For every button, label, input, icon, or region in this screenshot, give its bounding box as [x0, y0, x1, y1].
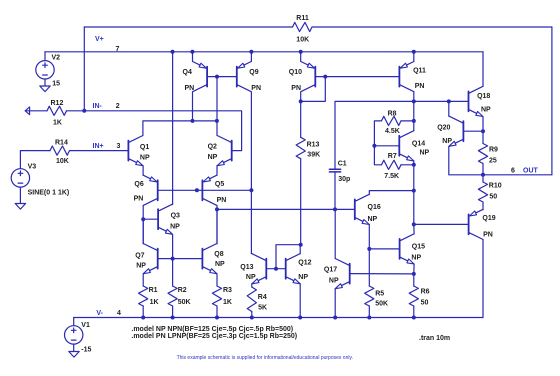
wire R3 to V- rail: [216, 306, 218, 318]
svg-text:Q3: Q3: [171, 212, 180, 219]
svg-text:Q6: Q6: [134, 181, 143, 188]
wire y101 rail C1 to Q18 base: [335, 101, 469, 169]
node junction V- R2: [171, 316, 175, 320]
wire V2 minus to ground: [44, 79, 46, 86]
wire y209 rail to Q16 base: [217, 208, 355, 210]
wire Q4/Q9 base rail: [207, 76, 237, 78]
svg-text:PN: PN: [251, 85, 261, 92]
node junction Q12/Q13 base: [274, 267, 278, 271]
svg-text:4: 4: [117, 310, 121, 317]
svg-text:Q15: Q15: [412, 244, 425, 251]
svg-text:SINE(0 1 1K): SINE(0 1 1K): [28, 189, 70, 196]
wire R6 to V- rail: [413, 306, 415, 318]
wire V1 to V- rail: [73, 318, 75, 326]
wire Q10 base down to collector node: [301, 77, 326, 102]
wire V3 to R14: [20, 151, 50, 169]
wire R14 to Q1 base node 3: [70, 150, 129, 152]
node junction Q15 emitter R6 Q17 base: [412, 272, 416, 276]
transistor Q15: [399, 239, 401, 259]
svg-text:3: 3: [117, 143, 121, 150]
wire Q9 collector down to Q13 collector: [250, 92, 252, 254]
voltage source V3: [11, 169, 29, 187]
wire Q14 collector column: [413, 101, 415, 130]
node junction y101 Q20 collector: [447, 99, 451, 103]
node junction 7-rail Q11 emitter: [412, 50, 416, 54]
wire Q10/Q11 base rail: [315, 76, 399, 78]
resistor R6: [413, 274, 415, 286]
wire R2 to V- rail: [172, 306, 174, 318]
ground below V3: [15, 204, 25, 210]
transistor Q12: [285, 259, 287, 279]
svg-text:NP: NP: [329, 278, 339, 285]
svg-text:4.5K: 4.5K: [385, 128, 400, 135]
svg-text:-15: -15: [81, 346, 91, 353]
svg-text:R8: R8: [388, 111, 397, 118]
svg-text:Q19: Q19: [482, 215, 495, 222]
wire Q6 collector down x143 column: [142, 206, 144, 244]
wire R7 right to Q14 emitter: [401, 164, 414, 166]
wire R9 to OUT line: [482, 164, 484, 175]
svg-text:1K: 1K: [53, 120, 62, 127]
transistor Q13 (mirrored): [265, 259, 267, 279]
svg-text:NP: NP: [208, 154, 218, 161]
resistor R11: [293, 22, 313, 31]
wire V+ top feedback rail (node 2 to R11): [84, 26, 292, 28]
svg-text:25: 25: [489, 157, 497, 164]
wire arrow to R12: [25, 110, 47, 112]
transistor Q7 (mirrored): [157, 249, 159, 269]
node junction Q15 base tap: [367, 247, 371, 251]
wire Q8 collector up to y209: [216, 209, 218, 243]
svg-text:R11: R11: [296, 15, 309, 22]
wire Q3 base: [143, 218, 158, 220]
svg-text:R4: R4: [258, 294, 267, 301]
wire Q4 emitter to V+ rail: [192, 52, 194, 62]
svg-text:.tran 10m: .tran 10m: [419, 335, 450, 342]
node junction R7 Q14 emitter: [412, 163, 416, 167]
wire Q5/Q6 base rail: [158, 189, 252, 191]
svg-text:10K: 10K: [296, 36, 309, 43]
svg-text:7: 7: [116, 46, 120, 53]
wire Q3 collector up to V+ rail: [172, 52, 174, 205]
svg-text:NP: NP: [481, 106, 491, 113]
wire Q15 emitter to R6 node: [413, 264, 415, 274]
wire Q1 emitter to Q6 emitter: [142, 166, 144, 176]
svg-text:1K: 1K: [150, 299, 159, 306]
wire IN- to Q2 base: [84, 111, 241, 151]
wire base tie up to Q12 collector: [276, 245, 301, 269]
wire OUT line node 6: [483, 174, 552, 176]
node junction y101 Q11/Q14 collector: [412, 99, 416, 103]
wire Q16 emitter down to R5: [368, 225, 370, 287]
node junction Q10 collector R13: [299, 99, 303, 103]
svg-text:NP: NP: [246, 274, 256, 281]
svg-text:15: 15: [52, 80, 60, 87]
svg-text:PN: PN: [483, 232, 493, 239]
svg-text:C1: C1: [338, 161, 347, 168]
wire R8 left to R7 left: [374, 121, 381, 165]
node junction Q19 base / Q15 collector: [412, 222, 416, 226]
wire V+ rail node 7: [45, 51, 483, 53]
node junction Q5/Q8 collector y209 rail: [215, 207, 219, 211]
node junction 7-rail Q3 collector: [171, 50, 175, 54]
svg-text:NP: NP: [215, 261, 225, 268]
transistor Q1: [127, 141, 129, 161]
wire Q13 emitter to R4: [251, 284, 253, 287]
svg-text:39K: 39K: [307, 151, 320, 158]
node junction V- Q17 emitter: [333, 316, 337, 320]
svg-text:1K: 1K: [223, 299, 232, 306]
transistor Q14: [398, 136, 400, 156]
svg-text:2: 2: [116, 103, 120, 110]
svg-text:V-: V-: [96, 310, 103, 317]
svg-text:Q20: Q20: [437, 124, 450, 131]
svg-text:NP: NP: [140, 154, 150, 161]
wire Q18 collector to V+ rail end: [482, 52, 484, 87]
svg-text:50K: 50K: [375, 301, 388, 308]
wire Q13 collector up to Q9 column: [250, 253, 252, 255]
svg-text:Q17: Q17: [324, 266, 337, 273]
svg-text:R12: R12: [51, 100, 64, 107]
transistor Q20 (mirrored): [462, 121, 464, 141]
svg-text:NP: NP: [170, 224, 180, 231]
node junction R8 Q14 collector: [412, 119, 416, 123]
wire V3 minus to ground: [19, 187, 21, 203]
svg-text:IN-: IN-: [93, 103, 103, 110]
svg-text:6: 6: [511, 167, 515, 174]
svg-text:V3: V3: [28, 163, 37, 170]
transistor Q11 PNP: [398, 67, 400, 87]
svg-text:Q18: Q18: [477, 93, 490, 100]
wire V2 to V+ rail: [44, 52, 46, 61]
wire Q3 emitter to R2: [172, 259, 174, 286]
node junction Q7 base rail Q3 emitter: [171, 257, 175, 261]
node junction 7-rail Q9 emitter: [249, 50, 253, 54]
node junction 7-rail Q4 emitter: [190, 50, 194, 54]
svg-text:PN: PN: [217, 197, 227, 204]
node junction Q9 collector at Q5/Q6 base rail: [249, 188, 253, 192]
svg-text:Q14: Q14: [412, 140, 425, 147]
svg-text:R5: R5: [375, 290, 384, 297]
wire Q14 base: [374, 145, 399, 147]
node junction V- R4: [250, 316, 254, 320]
node junction V- Q12 emitter: [298, 316, 302, 320]
node junction 7-rail Q10 emitter: [299, 50, 303, 54]
svg-text:R13: R13: [307, 141, 320, 148]
node junction Q2 collector on y121: [215, 119, 219, 123]
wire Q19 collector down to V- rail: [482, 240, 484, 318]
svg-text:Q5: Q5: [215, 181, 224, 188]
svg-text:PN: PN: [415, 83, 425, 90]
node junction Q16 collector joins column: [412, 189, 416, 193]
svg-text:OUT: OUT: [523, 167, 539, 174]
svg-text:Q13: Q13: [240, 264, 253, 271]
resistor R10: [482, 175, 484, 182]
svg-text:R9: R9: [489, 147, 498, 154]
svg-text:PN: PN: [134, 196, 144, 203]
svg-text:R1: R1: [149, 287, 158, 294]
transistor Q6 PNP (mirrored): [157, 180, 159, 200]
svg-text:NP: NP: [411, 254, 421, 261]
node junction Q3 base tap: [141, 217, 145, 221]
node junction Q4 collector on y121: [191, 119, 195, 123]
node junction V- R1: [141, 316, 145, 320]
svg-text:R3: R3: [223, 287, 232, 294]
resistor R14: [50, 146, 70, 155]
wire C1 bottom to y209 rail: [334, 172, 336, 210]
wire V1 minus to ground: [73, 344, 75, 351]
node junction base rail pin: [195, 188, 199, 192]
wire Q17 collector up to y209 C1 node: [334, 209, 336, 258]
transistor Q17 (mirrored): [349, 264, 351, 284]
wire Q17 emitter to V- rail: [334, 289, 336, 318]
resistor R1: [139, 286, 148, 306]
wire R8 right to Q14 collector: [401, 120, 414, 122]
wire Q5 collector down to y209: [216, 206, 218, 244]
wire R10 to Q19 emitter: [482, 202, 484, 210]
svg-text:PN: PN: [291, 85, 301, 92]
input arrow IN-: [25, 107, 29, 115]
svg-text:NP: NP: [136, 263, 146, 270]
svg-text:.model PN LPNP(BF=25 Cje=.3p C: .model PN LPNP(BF=25 Cje=.3p Cjc=1.5p Rb…: [131, 333, 297, 340]
svg-text:NP: NP: [298, 274, 308, 281]
voltage source V2: [36, 61, 54, 79]
wire Q11 emitter to V+ rail: [413, 52, 415, 62]
resistor R3: [212, 286, 221, 306]
svg-text:10K: 10K: [56, 158, 69, 165]
wire Q20 emitter to OUT line: [449, 146, 483, 175]
transistor Q16: [354, 199, 356, 219]
wire Q1 collector to y121 rail: [143, 121, 217, 136]
transistor Q5 PNP: [201, 180, 203, 200]
svg-text:Q4: Q4: [183, 69, 192, 76]
wire Q19 base line: [414, 223, 469, 225]
svg-text:Q12: Q12: [298, 260, 311, 267]
wire Q12 collector up: [299, 245, 301, 254]
wire Q15 base: [369, 248, 399, 250]
svg-text:7.5K: 7.5K: [384, 173, 399, 180]
wire Q7 emitter to R1: [142, 274, 144, 286]
svg-text:Q2: Q2: [208, 144, 217, 151]
wire Q7 collector up x143: [142, 219, 144, 243]
node junction Q12 collector-base tie: [299, 243, 303, 247]
wire V- rail node 4: [74, 317, 483, 319]
wire Q16 collector to Q14 emitter column: [369, 191, 414, 195]
wire R13 column: [300, 101, 302, 137]
svg-text:V2: V2: [52, 55, 61, 62]
transistor Q8: [201, 249, 203, 269]
transistor Q18: [468, 91, 470, 111]
wire Q20 collector up to y101: [448, 101, 450, 116]
svg-text:50K: 50K: [178, 299, 191, 306]
wire Q9 emitter to V+ rail: [250, 52, 252, 62]
resistor R5: [365, 286, 374, 306]
svg-text:R10: R10: [489, 183, 502, 190]
node junction OUT R9 R10: [481, 173, 485, 177]
resistor R2: [168, 286, 177, 306]
node junction Q18 emitter R9 Q20 base: [481, 129, 485, 133]
wire R5 to V- rail: [368, 306, 370, 318]
wire Q17 base line to R6 node: [350, 273, 414, 275]
voltage source V1: [65, 326, 83, 344]
transistor Q19 PNP: [468, 214, 470, 234]
svg-text:Q11: Q11: [413, 68, 426, 75]
wire R1 to V- rail: [142, 306, 144, 318]
svg-text:50: 50: [421, 299, 429, 306]
wire Q8 emitter to R3: [216, 274, 218, 286]
wire R13 to Q12 collector: [300, 159, 302, 245]
node junction V- R3: [215, 316, 219, 320]
svg-text:NP: NP: [442, 138, 452, 145]
transistor Q9 PNP: [236, 67, 238, 87]
wire R12 to node 2: [67, 110, 85, 112]
wire Q12/Q13 base rail: [266, 268, 285, 270]
svg-text:This example schematic is supp: This example schematic is supplied for i…: [177, 355, 353, 361]
wire Q10 collector to R13 top node: [300, 92, 302, 101]
svg-text:R7: R7: [388, 153, 397, 160]
wire Q10 emitter to V+ rail: [300, 52, 302, 62]
transistor Q10 PNP (mirrored): [314, 67, 316, 87]
svg-text:R2: R2: [178, 287, 187, 294]
svg-text:NP: NP: [420, 149, 430, 156]
svg-text:PN: PN: [185, 85, 195, 92]
wire R11 to output right edge: [312, 26, 552, 28]
capacitor C1: [329, 168, 340, 170]
resistor R7: [382, 160, 402, 169]
wire Q20 base to R9 node: [463, 130, 483, 132]
wire right edge down to OUT: [551, 27, 553, 175]
node junction R7/R8 left Q14 base: [372, 144, 376, 148]
ground below V2: [40, 86, 50, 92]
wire Q2 emitter to Q5 emitter: [216, 166, 218, 176]
wire Q7/Q8 base rail: [158, 258, 203, 260]
wire node 2 vertical (IN- to top rail): [83, 27, 85, 111]
node junction IN- node 2: [82, 109, 86, 113]
wire Q4 collector down to y121: [192, 92, 194, 121]
svg-text:Q10: Q10: [289, 69, 302, 76]
wire Q14 emitter column down: [413, 161, 415, 225]
resistor R8: [382, 116, 402, 125]
ground below V1: [69, 352, 79, 358]
node junction V- R5: [367, 316, 371, 320]
svg-text:Q8: Q8: [214, 251, 223, 258]
svg-text:NP: NP: [368, 216, 378, 223]
svg-text:V1: V1: [81, 322, 90, 329]
wire Q3 emitter down to Q7 base rail: [172, 235, 174, 259]
svg-text:R14: R14: [55, 140, 68, 147]
svg-text:5K: 5K: [258, 305, 267, 312]
svg-text:IN+: IN+: [93, 143, 104, 150]
svg-text:V+: V+: [95, 36, 104, 43]
wire Q2 collector up to Q4/Q9 base rail: [216, 77, 218, 136]
resistor R13: [296, 137, 305, 158]
wire Q11 collector down to y101 rail: [413, 92, 415, 101]
node junction C1 bottom on y209: [333, 207, 337, 211]
svg-text:Q7: Q7: [135, 252, 144, 259]
transistor Q2 (mirrored): [231, 141, 233, 161]
transistor Q3: [157, 209, 159, 229]
node junction V- R6: [412, 316, 416, 320]
resistor R9: [482, 131, 484, 143]
wire Q15 collector up to Q19 base node: [413, 224, 415, 234]
wire Q18 emitter down to R9 node: [482, 117, 484, 132]
transistor Q4 PNP (mirrored): [206, 67, 208, 87]
resistor R12: [47, 106, 67, 115]
svg-text:Q16: Q16: [368, 204, 381, 211]
node junction Q10 base: [323, 75, 327, 79]
wire R4 to V- rail: [251, 312, 253, 318]
svg-text:R6: R6: [421, 289, 430, 296]
svg-text:50: 50: [489, 194, 497, 201]
svg-text:Q9: Q9: [249, 69, 258, 76]
svg-text:30p: 30p: [338, 176, 350, 183]
svg-text:Q1: Q1: [140, 144, 149, 151]
wire Q12 emitter to V- rail: [299, 284, 301, 318]
node junction base rail Q2 collector: [215, 75, 219, 79]
resistor R4: [247, 287, 256, 312]
